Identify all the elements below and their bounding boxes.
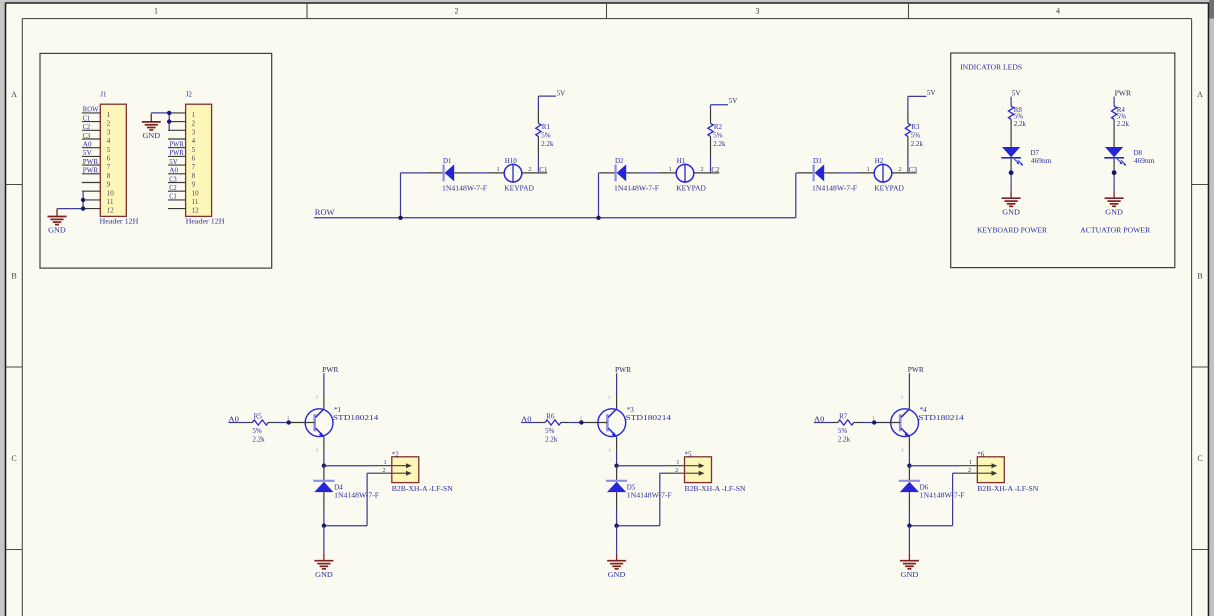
svg-text:5%: 5% — [911, 131, 921, 139]
svg-text:D7: D7 — [1031, 149, 1040, 157]
resistor R1 — [536, 123, 541, 136]
wire riser to resistor R1 — [537, 158, 539, 173]
svg-text:Header 12H: Header 12H — [186, 217, 225, 225]
junction emitter node *3 — [614, 464, 618, 468]
ground GND (indicator D7) — [1010, 191, 1012, 198]
wire D5 to ground node — [616, 492, 618, 510]
svg-text:2.2k: 2.2k — [911, 140, 924, 148]
svg-text:9: 9 — [192, 181, 196, 189]
svg-text:STD180214: STD180214 — [918, 413, 964, 422]
svg-text:C3: C3 — [83, 132, 91, 140]
svg-text:STD180214: STD180214 — [333, 413, 379, 422]
svg-text:B: B — [11, 272, 16, 281]
svg-text:3: 3 — [107, 128, 111, 136]
svg-text:3: 3 — [192, 128, 196, 136]
wire emitter node to connector *2 pin 1 — [324, 465, 373, 467]
resistor R7 — [838, 420, 854, 425]
svg-text:1N4148W-7-F: 1N4148W-7-F — [920, 491, 965, 500]
svg-text:9: 9 — [107, 181, 111, 189]
ground GND (driver *1) — [323, 554, 325, 561]
connector J2 body — [186, 104, 212, 216]
svg-text:5%: 5% — [838, 427, 848, 435]
connector J2 pins 1-12 — [168, 112, 186, 114]
svg-text:5V: 5V — [729, 97, 738, 105]
wire emitter node to diode D4 — [323, 466, 325, 481]
wire keypad row segment 2 — [599, 172, 600, 174]
svg-text:R1: R1 — [542, 123, 551, 131]
transistor *4 STD180214 — [891, 409, 919, 437]
svg-text:11: 11 — [192, 198, 199, 206]
diode D5 — [606, 480, 627, 482]
svg-text:2: 2 — [700, 166, 703, 173]
junction J2 pin 1 — [167, 111, 171, 115]
svg-text:R6: R6 — [546, 413, 555, 421]
wire emitter *1 down — [323, 437, 325, 452]
resistor R2 — [708, 123, 713, 136]
svg-text:R2: R2 — [714, 123, 723, 131]
svg-text:5%: 5% — [252, 427, 262, 435]
wire ground node down — [323, 526, 325, 554]
svg-text:GND: GND — [143, 132, 161, 140]
svg-text:6: 6 — [107, 155, 111, 163]
wire A0 to R7 — [814, 422, 832, 424]
svg-text:2: 2 — [107, 120, 111, 128]
wire riser to resistor R2 — [710, 158, 712, 173]
wire keypad row segment 1 — [401, 172, 428, 174]
svg-text:GND: GND — [1002, 208, 1020, 216]
svg-text:PWR: PWR — [83, 158, 99, 166]
wire D6 to ground node — [908, 492, 910, 510]
svg-text:5: 5 — [192, 146, 196, 154]
wire riser to resistor R3 — [907, 158, 909, 173]
junction base *3 — [579, 420, 583, 424]
LED D8 — [1105, 147, 1123, 157]
wire connector *6 pin 2 loop — [958, 472, 977, 474]
svg-text:C1: C1 — [539, 166, 548, 174]
wire emitter *4 down — [908, 437, 910, 452]
wire riser keypad 2 — [598, 173, 600, 218]
wire R8 to D7 — [1010, 119, 1012, 147]
svg-text:469nm: 469nm — [1031, 157, 1052, 165]
svg-text:*5: *5 — [685, 450, 693, 458]
svg-text:1N4148W-7-F: 1N4148W-7-F — [812, 184, 857, 193]
svg-text:2: 2 — [455, 7, 459, 16]
svg-text:1N4148W-7-F: 1N4148W-7-F — [627, 491, 672, 500]
svg-text:2: 2 — [968, 467, 971, 474]
svg-text:5V: 5V — [927, 89, 936, 97]
svg-text:A0: A0 — [83, 141, 92, 149]
wire R5 to base *1 — [268, 422, 276, 424]
svg-text:D2: D2 — [615, 157, 624, 165]
wire PWR to collector *3 — [616, 373, 618, 395]
svg-text:PWR: PWR — [322, 366, 338, 374]
svg-text:KEYBOARD POWER: KEYBOARD POWER — [977, 226, 1047, 235]
svg-text:KEYPAD: KEYPAD — [504, 184, 534, 193]
svg-text:1: 1 — [969, 459, 972, 466]
wire ROW horizontal — [314, 217, 796, 219]
svg-text:H1: H1 — [677, 157, 686, 165]
svg-text:2: 2 — [901, 447, 903, 452]
svg-text:GND: GND — [608, 571, 626, 579]
connector J1 pins 1-12 — [82, 112, 100, 114]
svg-text:A0: A0 — [169, 167, 178, 175]
svg-text:C: C — [1197, 454, 1202, 463]
junction base *4 — [872, 420, 876, 424]
svg-text:C2: C2 — [711, 166, 720, 174]
svg-text:C1: C1 — [83, 114, 91, 122]
keypad switch H1 — [676, 164, 694, 182]
junction ROW / keypad 1 — [398, 216, 402, 220]
wire R6 to base *3 — [561, 422, 569, 424]
svg-text:B2B-XH-A -LF-SN: B2B-XH-A -LF-SN — [977, 484, 1039, 493]
junction J2 pin 2 — [167, 119, 171, 123]
connector *2 B2B-XH-A-LF-SN — [392, 457, 419, 483]
svg-text:A: A — [1197, 90, 1203, 99]
svg-text:2.2k: 2.2k — [838, 436, 851, 444]
svg-text:7: 7 — [192, 163, 196, 171]
svg-text:H2: H2 — [875, 157, 884, 165]
svg-text:1: 1 — [867, 166, 870, 173]
svg-text:*2: *2 — [392, 450, 400, 458]
junction base *1 — [287, 420, 291, 424]
svg-text:4: 4 — [1056, 7, 1060, 16]
svg-text:7: 7 — [107, 163, 111, 171]
svg-text:C3: C3 — [909, 166, 918, 174]
junction ground node *1 — [322, 524, 326, 528]
svg-text:ACTUATOR POWER: ACTUATOR POWER — [1080, 226, 1150, 235]
wire connector *2 pin 2 loop — [373, 472, 392, 474]
diode D6 — [899, 480, 920, 482]
svg-text:1N4148W-7-F: 1N4148W-7-F — [334, 491, 379, 500]
svg-text:2: 2 — [675, 467, 678, 474]
wire emitter node to diode D5 — [616, 466, 618, 481]
keypad switch H10 — [504, 164, 522, 182]
svg-text:STD180214: STD180214 — [626, 413, 672, 422]
wire D8 to ground — [1113, 159, 1115, 173]
wire emitter node to connector *6 pin 1 — [909, 465, 958, 467]
transistor *3 STD180214 — [598, 409, 626, 437]
block box INDICATOR LEDS — [951, 53, 1175, 268]
wire ground node down — [908, 526, 910, 554]
svg-text:C2: C2 — [83, 123, 91, 131]
svg-text:A: A — [11, 90, 17, 99]
svg-text:ROW: ROW — [315, 208, 335, 217]
svg-text:1: 1 — [669, 166, 672, 173]
junction emitter node *1 — [322, 464, 326, 468]
wire keypad row segment 3 — [796, 172, 798, 174]
svg-text:H10: H10 — [505, 157, 518, 165]
svg-text:PWR: PWR — [83, 167, 99, 175]
svg-text:2.2k: 2.2k — [541, 140, 554, 148]
ground GND (driver *3) — [616, 554, 618, 561]
wire riser keypad 3 — [795, 173, 797, 218]
svg-text:5V: 5V — [169, 158, 178, 166]
wire emitter *3 down — [616, 437, 618, 452]
wire PWR to R4 — [1113, 97, 1115, 107]
svg-text:2: 2 — [316, 447, 318, 452]
svg-text:12: 12 — [107, 207, 115, 215]
svg-text:GND: GND — [315, 571, 333, 579]
svg-text:GND: GND — [48, 227, 66, 235]
resistor R3 — [905, 123, 910, 136]
ground GND (indicator D8) — [1113, 191, 1115, 198]
svg-text:2.2k: 2.2k — [252, 436, 265, 444]
resistor R8 — [1009, 106, 1014, 119]
resistor R4 — [1112, 106, 1117, 119]
svg-text:D8: D8 — [1134, 149, 1143, 157]
connector *6 B2B-XH-A-LF-SN — [977, 457, 1004, 483]
wire emitter node to connector *5 pin 1 — [617, 465, 666, 467]
svg-text:C2: C2 — [169, 184, 177, 192]
svg-text:469nm: 469nm — [1134, 157, 1155, 165]
keypad switch H2 — [874, 164, 892, 182]
svg-text:5%: 5% — [545, 427, 555, 435]
junction ground node *3 — [614, 524, 618, 528]
diode D1 — [443, 165, 445, 182]
svg-text:1: 1 — [497, 166, 500, 173]
svg-text:1N4148W-7-F: 1N4148W-7-F — [442, 184, 487, 193]
junction below D7 — [1009, 170, 1014, 175]
junction ground node *4 — [907, 524, 911, 528]
svg-text:KEYPAD: KEYPAD — [676, 184, 706, 193]
svg-text:2.2k: 2.2k — [545, 436, 558, 444]
wire J1 pins 10-12 bus to ground — [82, 191, 84, 208]
junction ROW / keypad 2 — [596, 216, 600, 220]
diode D2 — [614, 165, 616, 182]
svg-text:1: 1 — [107, 111, 111, 119]
svg-text:10: 10 — [107, 189, 115, 197]
connector J1 body — [100, 104, 126, 216]
svg-text:C: C — [11, 454, 16, 463]
svg-text:R5: R5 — [254, 413, 263, 421]
svg-text:5V: 5V — [1012, 89, 1021, 97]
svg-text:C1: C1 — [169, 193, 177, 201]
junction below D8 — [1112, 170, 1117, 175]
ground GND (J2) — [150, 115, 152, 122]
wire PWR to collector *1 — [323, 373, 325, 395]
svg-text:2.2k: 2.2k — [1117, 120, 1130, 128]
svg-text:6: 6 — [192, 155, 196, 163]
svg-text:2: 2 — [609, 447, 611, 452]
wire ground node down — [616, 526, 618, 554]
svg-text:2: 2 — [192, 120, 196, 128]
wire connector *5 pin 2 loop — [666, 472, 685, 474]
diode D3 — [812, 165, 814, 182]
svg-text:3: 3 — [756, 7, 760, 16]
svg-text:INDICATOR LEDS: INDICATOR LEDS — [960, 63, 1022, 72]
svg-text:11: 11 — [107, 198, 114, 206]
svg-text:4: 4 — [107, 137, 111, 145]
connector *5 B2B-XH-A-LF-SN — [685, 457, 712, 483]
svg-text:GND: GND — [901, 571, 919, 579]
svg-text:2: 2 — [528, 166, 531, 173]
LED D7 — [1002, 147, 1020, 157]
wire PWR to collector *4 — [908, 373, 910, 395]
svg-text:5%: 5% — [713, 131, 723, 139]
svg-text:2: 2 — [382, 467, 385, 474]
svg-text:2.2k: 2.2k — [1014, 120, 1027, 128]
wire 5V to R8 — [1010, 97, 1012, 107]
svg-text:2: 2 — [898, 166, 901, 173]
wire D7 to ground — [1010, 159, 1012, 173]
svg-text:5V: 5V — [83, 149, 92, 157]
junction J1 pin 11 — [81, 198, 85, 202]
svg-text:PWR: PWR — [1115, 89, 1132, 97]
transistor *1 STD180214 — [305, 409, 333, 437]
block box around J1/J2 — [40, 53, 272, 268]
svg-text:PWR: PWR — [169, 141, 184, 149]
svg-text:B2B-XH-A -LF-SN: B2B-XH-A -LF-SN — [685, 484, 747, 493]
svg-text:12: 12 — [192, 207, 200, 215]
svg-text:10: 10 — [192, 189, 200, 197]
svg-text:1: 1 — [192, 111, 196, 119]
svg-text:J2: J2 — [186, 90, 193, 98]
wire D4 to ground node — [323, 492, 325, 510]
wire R7 to base *4 — [854, 422, 862, 424]
svg-text:B: B — [1197, 272, 1202, 281]
svg-text:1: 1 — [676, 459, 679, 466]
svg-text:R3: R3 — [911, 123, 920, 131]
svg-text:PWR: PWR — [615, 366, 631, 374]
wire J2 pins 1-3 bus to ground — [168, 113, 170, 130]
svg-text:PWR: PWR — [169, 149, 184, 157]
junction J1 pin 12 — [81, 206, 85, 210]
svg-text:Header 12H: Header 12H — [100, 217, 139, 225]
svg-text:8: 8 — [192, 172, 196, 180]
wire A0 to R6 — [521, 422, 539, 424]
svg-text:2.2k: 2.2k — [713, 140, 726, 148]
svg-text:PWR: PWR — [908, 366, 924, 374]
svg-text:1N4148W-7-F: 1N4148W-7-F — [614, 184, 659, 193]
svg-text:5: 5 — [107, 146, 111, 154]
svg-text:GND: GND — [1105, 208, 1123, 216]
svg-text:KEYPAD: KEYPAD — [874, 184, 904, 193]
diode D4 — [313, 480, 334, 482]
svg-text:1: 1 — [154, 7, 158, 16]
svg-text:D1: D1 — [443, 157, 452, 165]
wire emitter node to diode D6 — [908, 466, 910, 481]
svg-text:5V: 5V — [557, 89, 566, 97]
svg-text:1: 1 — [384, 459, 387, 466]
svg-text:B2B-XH-A -LF-SN: B2B-XH-A -LF-SN — [392, 484, 454, 493]
wire A0 to R5 — [228, 422, 246, 424]
ground GND (J1) — [56, 210, 58, 217]
junction emitter node *4 — [907, 464, 911, 468]
svg-text:8: 8 — [107, 172, 111, 180]
ground GND (driver *4) — [908, 554, 910, 561]
resistor R6 — [545, 420, 561, 425]
svg-text:5%: 5% — [541, 131, 551, 139]
svg-text:*6: *6 — [977, 450, 985, 458]
svg-text:4: 4 — [192, 137, 196, 145]
svg-text:J1: J1 — [100, 90, 107, 98]
wire riser keypad 1 — [400, 173, 402, 218]
svg-text:D3: D3 — [813, 157, 822, 165]
svg-text:ROW: ROW — [83, 106, 99, 114]
svg-text:R7: R7 — [839, 413, 848, 421]
wire R4 to D8 — [1113, 119, 1115, 147]
resistor R5 — [252, 420, 268, 425]
svg-text:C3: C3 — [169, 175, 177, 183]
